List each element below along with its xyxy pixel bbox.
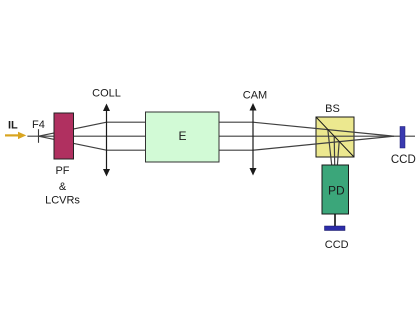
svg-text:COLL: COLL (92, 88, 121, 100)
svg-text:CAM: CAM (243, 89, 267, 101)
svg-text:CCD: CCD (391, 154, 416, 166)
svg-text:E: E (178, 129, 186, 143)
svg-text:&: & (59, 181, 67, 193)
svg-text:BS: BS (325, 103, 340, 115)
svg-text:PF: PF (55, 165, 69, 177)
svg-text:PD: PD (328, 184, 345, 198)
svg-text:LCVRs: LCVRs (45, 195, 80, 207)
svg-text:CCD: CCD (325, 239, 349, 251)
svg-text:F4: F4 (32, 119, 45, 131)
svg-text:IL: IL (8, 120, 18, 132)
